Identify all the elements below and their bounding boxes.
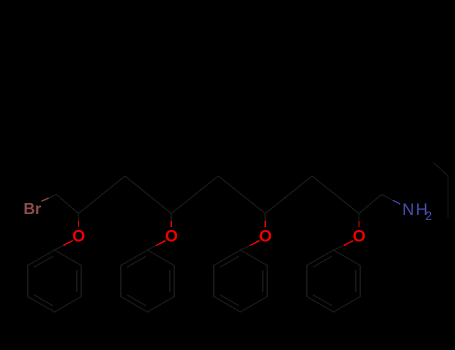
- svg-text:O: O: [165, 228, 178, 246]
- wire C8-C9: [359, 195, 382, 214]
- clipped fragment at right edge: [434, 163, 449, 177]
- bond O1-ring1 (carbon half): [55, 245, 64, 250]
- bond C8-O4 (oxygen half, red): [358, 221, 360, 227]
- phenyl ring 3: [214, 250, 268, 312]
- bond Br-C1 (carbon half): [49, 195, 57, 199]
- wire C7-C8: [312, 176, 359, 214]
- bond C8-O4 (carbon half): [358, 214, 360, 222]
- phenyl ring 1: [28, 250, 82, 312]
- phenyl ring 4: [307, 250, 361, 312]
- svg-text:2: 2: [425, 209, 432, 223]
- bond C6-O3 (carbon half): [264, 214, 266, 222]
- bond C9-N (nitrogen half, blue): [393, 200, 400, 204]
- svg-text:O: O: [353, 228, 366, 246]
- wire C6-C7 peak: [265, 176, 312, 214]
- svg-text:O: O: [72, 228, 85, 246]
- bond O3-ring3 (oxygen half, red): [250, 241, 259, 246]
- bond Br-C1 (bromine half, maroon): [42, 198, 49, 201]
- bond O4-ring4 (oxygen half, red): [344, 241, 353, 246]
- wire C3-C4: [125, 176, 171, 214]
- phenyl ring 2: [121, 250, 175, 312]
- wire C4-C5 peak: [171, 176, 218, 214]
- bond C4-O2 (carbon half): [170, 214, 172, 222]
- wire C5-C6: [218, 176, 265, 214]
- bond C9-N (carbon half): [382, 195, 393, 201]
- bond C4-O2 (oxygen half, red): [170, 221, 172, 227]
- wire C1-C2: [57, 195, 79, 214]
- bond C2-O1 (oxygen half, red): [78, 221, 80, 227]
- wire C2-C3 peak: [79, 176, 126, 214]
- bond O4-ring4 (carbon half): [334, 245, 345, 250]
- bond C6-O3 (oxygen half, red): [264, 221, 266, 227]
- svg-text:Br: Br: [24, 201, 42, 218]
- bond O1-ring1 (oxygen half, red): [64, 241, 73, 246]
- bond O2-ring2 (oxygen half, red): [156, 241, 165, 246]
- bond O2-ring2 (carbon half): [148, 245, 157, 250]
- bond O3-ring3 (carbon half): [241, 245, 251, 250]
- bond C2-O1 (carbon half): [78, 214, 80, 222]
- svg-text:O: O: [259, 228, 272, 246]
